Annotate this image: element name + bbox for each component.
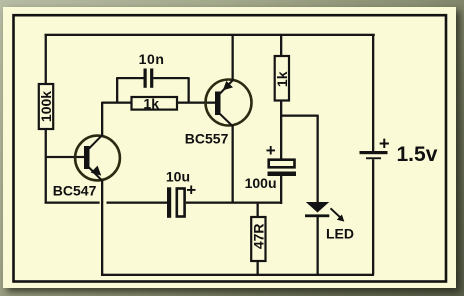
capacitor C2 10u	[167, 187, 185, 218]
svg-text:100k: 100k	[38, 91, 54, 122]
wire 1k(vert) bottom to 100u top	[280, 101, 282, 160]
svg-text:1.5v: 1.5v	[397, 143, 438, 166]
svg-text:LED: LED	[326, 225, 354, 241]
svg-text:1k: 1k	[274, 71, 290, 87]
transistor Q1 BC547	[75, 135, 120, 181]
svg-text:47R: 47R	[251, 223, 267, 249]
resistor R4 47R	[251, 217, 267, 261]
wire 1k left lead	[102, 102, 133, 104]
svg-text:+: +	[266, 141, 276, 160]
svg-text:BC557: BC557	[185, 130, 229, 146]
wire right vertical top (battery +)	[372, 34, 374, 152]
wire left vertical upper	[45, 34, 47, 84]
wire 1k(vert) top lead	[280, 34, 282, 56]
wire base BC547	[45, 156, 85, 158]
wire bottom rail	[101, 274, 374, 276]
svg-text:1k: 1k	[143, 96, 159, 112]
LED D1	[305, 202, 329, 275]
wire 100u bottom lead	[280, 176, 282, 204]
svg-text:10u: 10u	[166, 168, 190, 184]
svg-text:100u: 100u	[245, 175, 277, 191]
resistor R2 1k	[132, 96, 178, 112]
wire BC557 emitter to rail	[232, 34, 234, 81]
wire 10n left corner	[116, 77, 118, 103]
transistor Q2 BC557	[206, 80, 252, 127]
wire 1k to BC557 base	[177, 102, 216, 104]
wire left vertical lower	[45, 129, 47, 204]
capacitor C3 100u	[268, 160, 297, 176]
svg-text:10n: 10n	[139, 51, 165, 67]
capacitor C1 10n	[144, 69, 154, 88]
svg-text:+: +	[379, 133, 390, 154]
wire right vertical bottom	[372, 159, 374, 275]
LED arrow	[331, 208, 345, 221]
wire BC557 collector down	[232, 126, 234, 204]
wire 47R bottom lead	[257, 261, 259, 275]
wire BC547 collector vertical	[101, 102, 103, 136]
svg-text:BC547: BC547	[53, 182, 97, 198]
wire 10n right corner	[153, 77, 189, 79]
resistor R1 100k	[38, 84, 54, 129]
resistor R3 1k vertical	[274, 56, 290, 101]
wire middle horizontal to 10u	[107, 202, 168, 204]
wire BC547 emitter vertical	[101, 180, 103, 275]
wire top rail	[45, 34, 375, 36]
wire 47R top lead	[257, 203, 259, 218]
wire 10u right to junction	[186, 202, 282, 204]
wire jog to LED	[280, 115, 318, 117]
wire middle horizontal left segment	[45, 202, 100, 204]
battery BT1 1.5v	[360, 151, 388, 159]
